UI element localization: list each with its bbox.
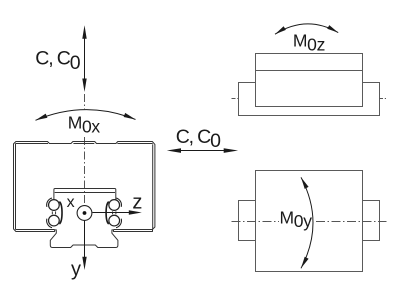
y axis arrow [84,221,86,258]
ball spacer ticks [52,211,116,214]
z axis arrow [92,212,130,214]
inner top edge lines [16,143,153,145]
moment arc M0z [275,24,338,34]
load arrow C,C0 horizontal (middle) [167,148,238,153]
moment arc M0x [36,110,136,121]
centerline vertical (cross-section) [84,94,86,205]
svg-text:M0y: M0y [280,207,313,231]
svg-text:M0x: M0x [68,113,101,137]
carriage parting line [256,70,363,72]
svg-text:C, C0: C, C0 [176,126,221,152]
inner chamfer line left edge [15,144,17,230]
rail top band [54,189,116,200]
rail groove bracket right [106,202,109,224]
svg-text:z: z [132,191,142,213]
centerline horizontal [232,221,387,223]
rail groove bracket left [59,202,62,224]
moment arc M0y [301,177,313,268]
svg-text:M0z: M0z [293,31,325,55]
carriage groove arcs left [47,198,122,228]
rail (side view) [239,83,380,116]
svg-text:C, C0: C, C0 [35,48,80,75]
coordinate origin circle (x axis out of page) [77,206,92,221]
carriage block outline (cross-section) [14,142,155,248]
svg-text:y: y [71,259,81,281]
load arrow C,C0 vertical [82,25,86,92]
svg-text:x: x [67,194,75,211]
rail centerline stubs [232,98,387,100]
carriage rectangle (plan) [256,171,363,272]
inner bottom wing lines [16,229,153,231]
balls (rolling elements) [49,200,120,226]
rail right portion [363,201,380,241]
rail left portion [239,201,256,241]
carriage rectangle (side view) [256,54,363,107]
inner chamfer line right edge [152,144,154,229]
